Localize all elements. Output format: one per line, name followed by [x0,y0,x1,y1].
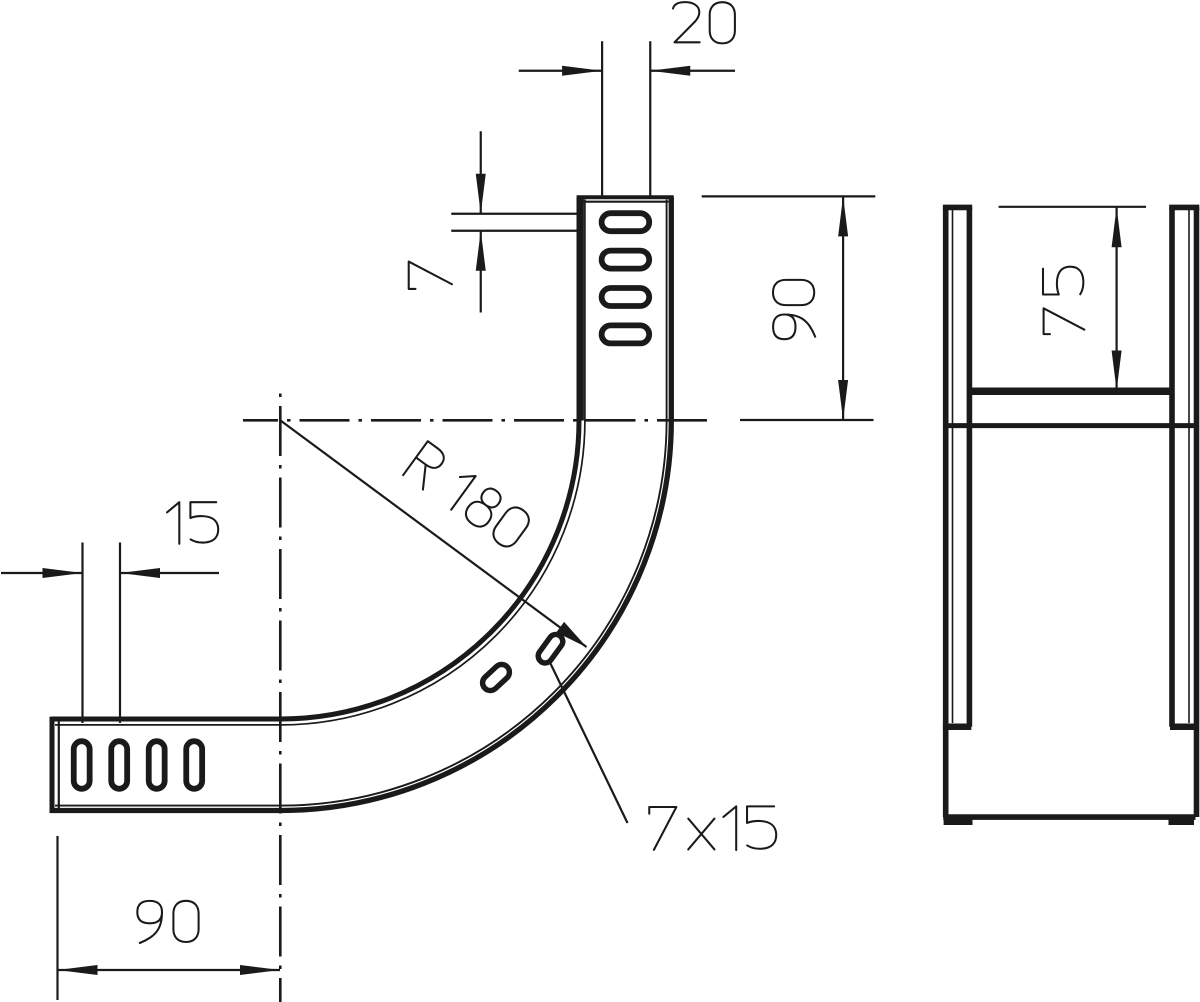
bend body outer-radius edge (right edge + outer arc + bottom edge) [50,197,672,810]
arc slot B (7x15) [535,632,565,666]
dim 15: extension lines [83,543,121,724]
slot 1, vertical arm (20x7) [602,213,650,231]
dim 15: dimension line + arrows [1,572,219,574]
slot 6, horizontal arm (7x20) [111,741,127,789]
left wall bottom cap [943,723,971,730]
dim 20: extension lines [602,41,650,197]
left wall top cap [943,205,972,211]
rim line on vertical arm left edge [581,197,584,420]
full-width flange line [943,423,1197,428]
left wall outer line [943,207,949,817]
thin line left end cap [58,721,60,809]
dim 90 right: dimension line + arrows [842,196,844,420]
slot 8, horizontal arm (7x20) [186,741,202,789]
dim 90 bottom: extension line [56,836,58,1000]
arc slot A (7x15) [479,661,512,693]
dim 90 right: extension lines [702,196,876,420]
label 15 [167,502,218,544]
slot 7, horizontal arm (7x20) [149,741,165,789]
left wall thin line [952,209,954,723]
label 7x15 [649,806,776,850]
dim 75: dimension line + arrows [1115,207,1117,390]
horizontal centerline [243,419,713,422]
slot 2, vertical arm (20x7) [602,251,650,269]
label 90 right (rotated) [773,280,815,339]
right wall thin line [1188,209,1190,723]
dim 75: extension line [999,206,1146,208]
bend thin line (outer radius side) [55,200,667,806]
dim 20: dimension line + arrows [519,70,735,72]
label 7 (rotated) [409,262,452,289]
right wall top cap [1169,205,1199,211]
label 90 bottom [137,901,198,943]
leader line to 7x15 slot [550,662,628,824]
left wall inner line [967,207,973,726]
right wall inner line [1169,207,1175,726]
slot 3, vertical arm (20x7) [602,288,650,306]
thin line top end cap [580,201,669,203]
slot 5, horizontal arm (7x20) [74,741,90,789]
vertical centerline [279,388,282,1002]
tray bed line [969,387,1171,395]
dim 90 bottom: dimension line + arrows [58,969,281,971]
left foot [944,820,973,826]
left end cap [50,717,55,813]
right foot [1169,820,1195,826]
right wall bottom cap [1170,723,1195,730]
top end cap [577,195,674,199]
label R 180 (rotated) [403,441,533,552]
bend thin line (inner radius side) [55,200,585,725]
R180 arrowhead [556,622,587,648]
label 20 [673,2,735,43]
right wall outer line [1194,207,1200,817]
bend body inner-radius edge (left edge + inner arc + top edge of horizontal arm) [52,197,579,719]
dim 7: dimension line + arrows [480,131,482,312]
dim 7: extension lines [451,214,579,231]
bottom line [943,814,1195,820]
label 75 (rotated) [1043,267,1084,334]
R180 radius leader line [281,421,587,648]
slot 4, vertical arm (20x7) [602,325,650,343]
